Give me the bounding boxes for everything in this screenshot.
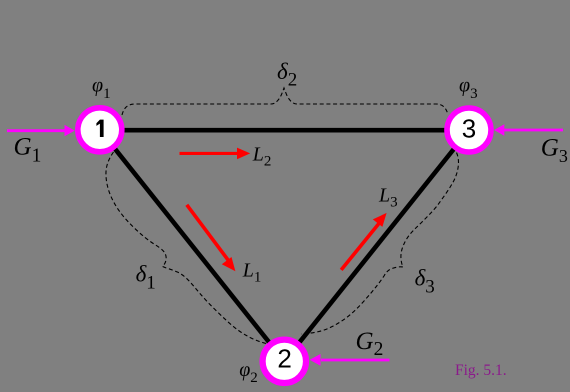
- wire line 2-3: [284, 130, 469, 361]
- arrow G1 (magenta): [7, 125, 75, 136]
- wire line 1-2: [100, 130, 284, 361]
- node 1: [78, 108, 122, 152]
- arrow G2 (magenta): [310, 354, 390, 366]
- node 2: [263, 340, 306, 383]
- brace delta3 (dashed): [301, 153, 459, 334]
- brace delta1 (dashed): [106, 152, 267, 344]
- svg-text:2: 2: [277, 344, 291, 374]
- svg-text:Fig. 5.1.: Fig. 5.1.: [455, 362, 507, 379]
- arrow L2 (red): [180, 148, 251, 160]
- node 3: [447, 108, 491, 152]
- wire line 1-3: [100, 128, 469, 133]
- svg-text:3: 3: [462, 113, 476, 143]
- arrow L3 (red): [341, 213, 386, 270]
- arrow L1 (red): [187, 205, 236, 271]
- arrow G3 (magenta): [494, 124, 563, 135]
- brace delta2 (dashed): [122, 88, 448, 115]
